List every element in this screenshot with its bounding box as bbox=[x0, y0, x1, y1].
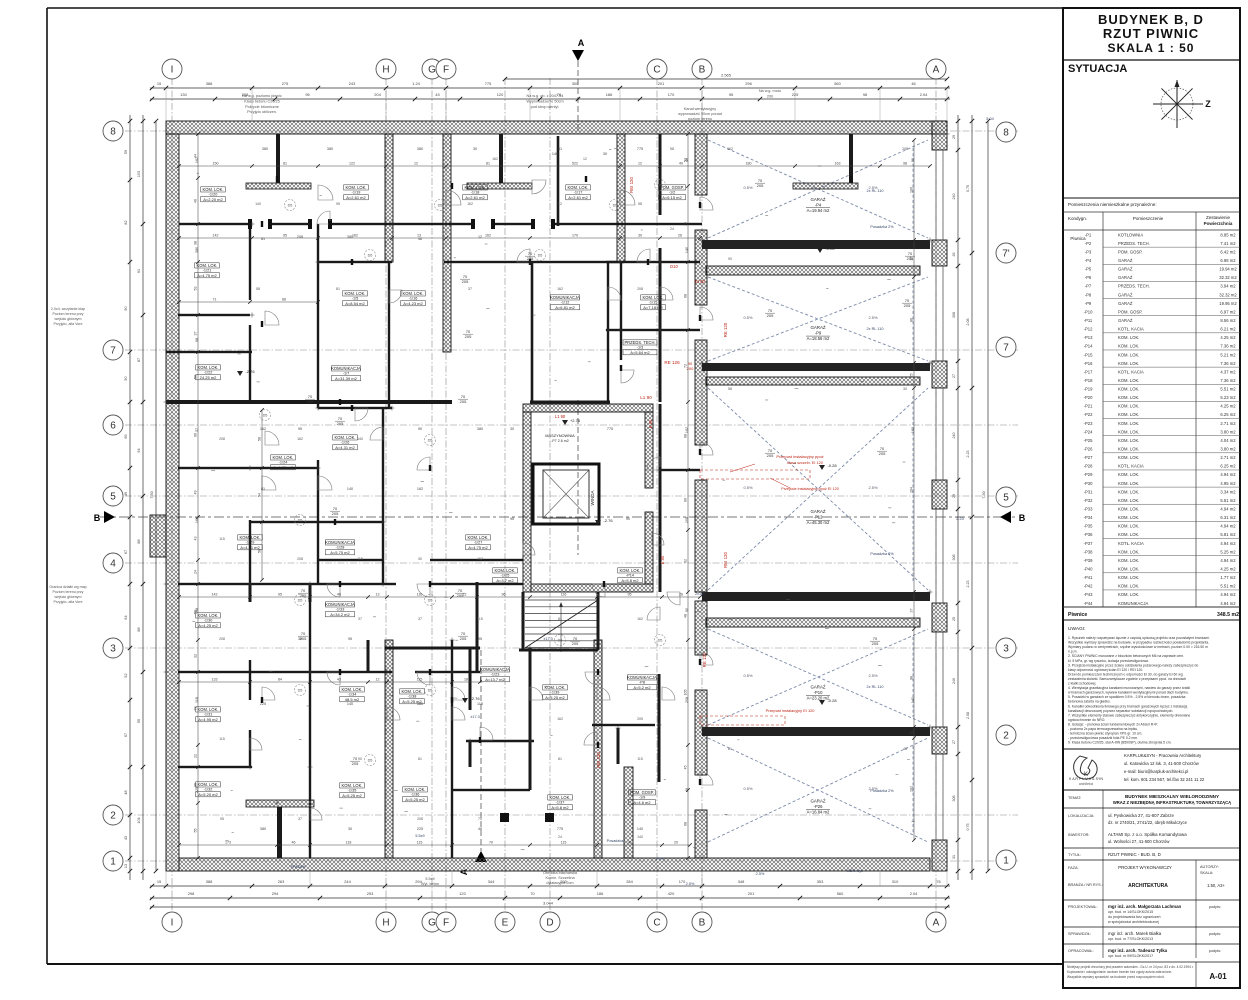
door arc bbox=[317, 211, 330, 224]
svg-text:46: 46 bbox=[292, 841, 296, 845]
svg-text:REI 120: REI 120 bbox=[629, 177, 634, 193]
svg-text:B: B bbox=[699, 65, 706, 76]
svg-text:2x110: 2x110 bbox=[695, 592, 705, 596]
garage bay 3 door dashes bbox=[912, 396, 914, 582]
svg-text:-P11: -P11 bbox=[1084, 318, 1093, 323]
intersection marker bbox=[381, 521, 386, 523]
svg-text:KOMUNIKACJA: KOMUNIKACJA bbox=[331, 366, 361, 371]
svg-text:240: 240 bbox=[952, 678, 956, 684]
svg-text:90: 90 bbox=[124, 306, 128, 310]
svg-text:30: 30 bbox=[510, 427, 514, 431]
room label KOM. LOK. -1/34 bbox=[340, 687, 365, 702]
note bottom left bbox=[421, 877, 439, 886]
svg-text:208: 208 bbox=[297, 557, 303, 561]
svg-text:12: 12 bbox=[478, 235, 482, 239]
interior wall x532 mid bbox=[531, 262, 534, 402]
T partition 1 bbox=[246, 183, 311, 189]
svg-text:140: 140 bbox=[685, 247, 689, 253]
svg-text:2.23: 2.23 bbox=[966, 581, 970, 588]
svg-text:KOM. LOK.: KOM. LOK. bbox=[1118, 429, 1139, 434]
svg-text:Wyl. beton: Wyl. beton bbox=[421, 882, 439, 886]
svg-text:5: 5 bbox=[1003, 493, 1009, 504]
svg-text:4.37 m2: 4.37 m2 bbox=[1220, 369, 1236, 374]
grid line row 1 bbox=[125, 860, 1018, 862]
svg-text:H: H bbox=[382, 918, 389, 929]
svg-text:D10: D10 bbox=[670, 264, 678, 269]
svg-text:2x RL 110: 2x RL 110 bbox=[867, 189, 884, 193]
door size label bbox=[298, 588, 308, 598]
svg-text:105: 105 bbox=[684, 690, 688, 696]
door jamb bbox=[585, 176, 587, 182]
garage bay 1 door dashes bbox=[912, 148, 914, 230]
intersection marker bbox=[528, 647, 533, 649]
room label KOMUNIKACJA -1/7 bbox=[331, 366, 361, 381]
svg-text:3: 3 bbox=[1003, 644, 1009, 655]
svg-text:380: 380 bbox=[347, 235, 353, 239]
svg-text:95: 95 bbox=[305, 92, 309, 97]
svg-text:420: 420 bbox=[668, 891, 675, 896]
svg-text:KOM. LOK.: KOM. LOK. bbox=[1118, 489, 1139, 494]
intersection marker bbox=[164, 671, 169, 673]
door jamb bbox=[339, 581, 341, 587]
interior dimension line x198 bbox=[194, 132, 200, 860]
svg-text:7: 7 bbox=[110, 346, 116, 357]
svg-text:-P6: -P6 bbox=[1085, 275, 1092, 280]
svg-text:2: 2 bbox=[1003, 731, 1009, 742]
svg-text:KOM. LOK.: KOM. LOK. bbox=[1118, 567, 1139, 572]
compass rose bbox=[1153, 80, 1211, 128]
svg-text:-P12: -P12 bbox=[814, 515, 824, 520]
svg-text:2x RL 110: 2x RL 110 bbox=[867, 327, 884, 331]
intersection marker bbox=[700, 362, 705, 364]
svg-text:PRZEDS. TECH.: PRZEDS. TECH. bbox=[1118, 241, 1150, 246]
svg-text:66: 66 bbox=[124, 434, 128, 438]
svg-text:162: 162 bbox=[467, 202, 473, 206]
svg-text:95: 95 bbox=[283, 234, 287, 238]
door arc bbox=[446, 190, 461, 205]
svg-text:73: 73 bbox=[194, 707, 198, 711]
interior wall y725 right of corridor bbox=[592, 724, 655, 726]
svg-text:162: 162 bbox=[477, 557, 483, 561]
svg-text:208: 208 bbox=[297, 235, 303, 239]
svg-text:±17.3: ±17.3 bbox=[470, 715, 479, 719]
svg-text:81: 81 bbox=[261, 487, 265, 491]
door jamb bbox=[647, 259, 649, 265]
svg-text:115: 115 bbox=[219, 537, 225, 541]
stair core bottom wall bbox=[531, 584, 653, 592]
svg-text:208: 208 bbox=[417, 817, 423, 821]
garage bay 3 cross bbox=[708, 388, 928, 590]
inwestor row bbox=[1068, 832, 1187, 844]
svg-text:46: 46 bbox=[478, 827, 482, 831]
interior wall y468 bbox=[178, 467, 318, 469]
door size label bbox=[902, 298, 912, 308]
garage bay 5 label bbox=[806, 798, 830, 814]
svg-text:KOTŁOWNIA: KOTŁOWNIA bbox=[1118, 232, 1143, 237]
svg-text:D5: D5 bbox=[438, 204, 443, 208]
garage divider wall 4-5 bbox=[702, 727, 930, 736]
svg-text:5.51 m2: 5.51 m2 bbox=[1220, 387, 1236, 392]
svg-text:118: 118 bbox=[346, 841, 352, 845]
svg-text:GARAŻ: GARAŻ bbox=[1118, 267, 1133, 272]
svg-text:243: 243 bbox=[349, 81, 356, 86]
svg-text:-P39: -P39 bbox=[1084, 558, 1094, 563]
svg-text:KOM. LOK.: KOM. LOK. bbox=[1118, 344, 1139, 349]
svg-text:KOM. LOK.: KOM. LOK. bbox=[403, 291, 424, 296]
svg-text:do projektowania bez ogranicze: do projektowania bez ograniczeń bbox=[1108, 915, 1161, 919]
svg-text:RE 120: RE 120 bbox=[702, 652, 707, 667]
svg-text:A=4.6 m2: A=4.6 m2 bbox=[633, 800, 651, 805]
svg-text:2.565: 2.565 bbox=[721, 73, 732, 78]
grid bubble H top bbox=[376, 59, 396, 79]
svg-text:D5: D5 bbox=[658, 639, 663, 643]
svg-text:KOM. LOK.: KOM. LOK. bbox=[273, 455, 294, 460]
exterior wall right pillar 6 bbox=[932, 727, 947, 754]
svg-text:1. Rysunek należy rozpatrywać: 1. Rysunek należy rozpatrywać łącznie z … bbox=[1068, 636, 1210, 640]
svg-text:37: 37 bbox=[195, 428, 199, 432]
grid bubble B top bbox=[692, 59, 712, 79]
svg-text:380: 380 bbox=[477, 427, 483, 431]
svg-text:253: 253 bbox=[367, 891, 374, 896]
svg-text:A=8.54 m2: A=8.54 m2 bbox=[345, 301, 365, 306]
svg-text:8: 8 bbox=[110, 127, 116, 138]
door arc bbox=[250, 738, 262, 750]
door jamb bbox=[429, 581, 431, 587]
svg-text:E 80: E 80 bbox=[660, 555, 665, 564]
door jambs wall y224 bbox=[248, 219, 252, 229]
door tag D5 bbox=[425, 435, 436, 446]
interior wall y741 bbox=[466, 740, 534, 743]
room label KOM. LOK. -1/36 bbox=[403, 787, 428, 802]
room label KOM. LOK. -1/29 bbox=[238, 535, 263, 550]
svg-text:59: 59 bbox=[124, 150, 128, 154]
grid bubble 7' right bbox=[996, 243, 1016, 263]
svg-text:46: 46 bbox=[418, 237, 422, 241]
svg-text:120: 120 bbox=[459, 891, 466, 896]
svg-text:140: 140 bbox=[637, 827, 643, 831]
svg-text:142: 142 bbox=[212, 593, 218, 597]
room label KOMUNIKACJA -P8 bbox=[627, 675, 657, 690]
dimension drop line bbox=[529, 88, 531, 121]
svg-text:5.51 m2: 5.51 m2 bbox=[1220, 584, 1236, 589]
svg-text:A=2.61 m2: A=2.61 m2 bbox=[346, 195, 366, 200]
room label KOM. LOK. -1/19 bbox=[344, 185, 369, 200]
intersection marker bbox=[700, 726, 705, 728]
dimension drop line bbox=[879, 88, 881, 121]
svg-text:POM. GOSP.: POM. GOSP. bbox=[630, 790, 654, 795]
svg-text:FAZA:: FAZA: bbox=[1068, 866, 1079, 870]
intersection marker bbox=[658, 261, 663, 263]
svg-text:podpis:: podpis: bbox=[1209, 932, 1221, 936]
door size label bbox=[877, 446, 887, 456]
svg-text:208: 208 bbox=[219, 437, 225, 441]
door arc bbox=[318, 476, 332, 490]
svg-text:klasy odporności ogniowej ścia: klasy odporności ogniowej ścian EI 120 /… bbox=[1068, 668, 1143, 672]
svg-text:KOM. LOK.: KOM. LOK. bbox=[198, 613, 219, 618]
svg-text:KOM. LOK.: KOM. LOK. bbox=[568, 185, 589, 190]
svg-text:WRAZ Z NIEZBĘDNĄ INFRASTRUKTUR: WRAZ Z NIEZBĘDNĄ INFRASTRUKTURĄ TOWARZYS… bbox=[1113, 800, 1231, 805]
svg-text:140: 140 bbox=[637, 835, 643, 839]
svg-text:7.36 m2: 7.36 m2 bbox=[1220, 344, 1236, 349]
svg-text:55: 55 bbox=[194, 829, 198, 833]
svg-text:162: 162 bbox=[297, 437, 303, 441]
intersection marker bbox=[657, 724, 662, 726]
svg-text:290: 290 bbox=[560, 879, 567, 884]
svg-text:G: G bbox=[428, 918, 436, 929]
intersection marker bbox=[450, 639, 455, 641]
interior wall hatched x389 bottom bbox=[385, 640, 393, 858]
svg-text:37: 37 bbox=[194, 332, 198, 336]
svg-text:0.5% wyl.: 0.5% wyl. bbox=[847, 869, 863, 873]
svg-text:240: 240 bbox=[952, 433, 956, 439]
svg-text:D5: D5 bbox=[558, 639, 563, 643]
svg-text:LOKALIZACJA:: LOKALIZACJA: bbox=[1068, 814, 1094, 818]
door jamb bbox=[261, 321, 263, 327]
svg-text:208: 208 bbox=[685, 697, 689, 703]
garage bay 2 label bbox=[806, 325, 830, 341]
svg-text:26: 26 bbox=[952, 253, 956, 257]
stair flight bbox=[525, 600, 598, 652]
svg-text:Pokrycie bitumiczne: Pokrycie bitumiczne bbox=[245, 105, 279, 109]
svg-text:45: 45 bbox=[684, 766, 688, 770]
intersection marker bbox=[164, 401, 169, 403]
svg-text:KOM. LOK.: KOM. LOK. bbox=[1118, 404, 1139, 409]
svg-text:115: 115 bbox=[477, 617, 483, 621]
svg-text:wyprowadzić 50cm ponad: wyprowadzić 50cm ponad bbox=[678, 112, 722, 116]
grid bubble B bottom bbox=[692, 912, 712, 932]
interior wall vertical x660 mid bbox=[659, 404, 662, 592]
svg-text:D5: D5 bbox=[298, 599, 303, 603]
dimension drop line bbox=[946, 88, 948, 121]
svg-text:KOM. LOK.: KOM. LOK. bbox=[1118, 575, 1139, 580]
svg-text:D5: D5 bbox=[428, 439, 433, 443]
dimension drop line bbox=[165, 88, 167, 121]
svg-text:Posadzka 2%: Posadzka 2% bbox=[870, 552, 894, 556]
garage bay 4 slope labels bbox=[743, 673, 878, 678]
svg-text:50: 50 bbox=[194, 375, 198, 379]
exterior wall right pillar 3 bbox=[932, 361, 947, 388]
svg-text:81: 81 bbox=[558, 617, 562, 621]
svg-text:KOM. LOK.: KOM. LOK. bbox=[198, 707, 219, 712]
intersection marker bbox=[618, 261, 623, 263]
door size label bbox=[305, 394, 315, 404]
svg-text:380: 380 bbox=[195, 247, 199, 253]
interior dimension line y595 bbox=[177, 593, 702, 599]
svg-text:Przejście instalacyjne ppoż EI: Przejście instalacyjne ppoż EI 120 bbox=[781, 487, 839, 491]
svg-text:142: 142 bbox=[213, 234, 219, 238]
svg-text:6.97 m2: 6.97 m2 bbox=[1220, 309, 1236, 314]
svg-text:348: 348 bbox=[738, 879, 745, 884]
svg-text:-P19: -P19 bbox=[1084, 387, 1094, 392]
svg-text:37: 37 bbox=[910, 609, 914, 613]
room label KOM. LOK. -1/30 bbox=[196, 613, 221, 628]
door tag D5 bbox=[425, 595, 436, 606]
door arc bbox=[637, 249, 650, 262]
svg-text:40: 40 bbox=[679, 162, 683, 166]
dimension chain top 1 bbox=[150, 81, 950, 90]
svg-text:2: 2 bbox=[110, 811, 116, 822]
svg-text:-P25: -P25 bbox=[1084, 438, 1094, 443]
svg-text:205: 205 bbox=[460, 399, 467, 404]
svg-text:Piwnice: Piwnice bbox=[1068, 612, 1087, 618]
svg-text:-P18: -P18 bbox=[1084, 378, 1094, 383]
svg-text:81: 81 bbox=[261, 237, 265, 241]
door size label bbox=[765, 448, 775, 458]
grid bubble G bottom bbox=[422, 912, 442, 932]
svg-text:208: 208 bbox=[685, 517, 689, 523]
door size label bbox=[458, 394, 468, 404]
interior wall y224 bbox=[179, 223, 252, 225]
garage divider wall 1-2 bbox=[702, 240, 930, 249]
svg-text:KOM. LOK.: KOM. LOK. bbox=[1118, 558, 1139, 563]
svg-text:KOM. LOK.: KOM. LOK. bbox=[1118, 524, 1139, 529]
dimension chain left 2 bbox=[137, 115, 145, 880]
svg-text:A=2.20 m2: A=2.20 m2 bbox=[203, 197, 223, 202]
svg-text:TYTUŁ:: TYTUŁ: bbox=[1068, 853, 1081, 857]
svg-text:4: 4 bbox=[110, 559, 116, 570]
footer note + number bbox=[1067, 965, 1227, 981]
svg-text:162: 162 bbox=[260, 427, 266, 431]
svg-text:WINDA: WINDA bbox=[590, 491, 595, 506]
intersection marker bbox=[390, 407, 395, 409]
dimension chain top 2 bbox=[150, 92, 950, 101]
svg-text:162: 162 bbox=[685, 427, 689, 433]
svg-text:3.94 m2: 3.94 m2 bbox=[1220, 284, 1236, 289]
note block bbox=[526, 94, 563, 109]
svg-text:A=3.7 m2: A=3.7 m2 bbox=[496, 578, 514, 583]
svg-text:173: 173 bbox=[225, 841, 231, 845]
svg-text:0.75: 0.75 bbox=[966, 824, 970, 831]
svg-text:A=6.15 m2: A=6.15 m2 bbox=[662, 195, 682, 200]
grid line column I bbox=[171, 78, 173, 912]
grid bubble C top bbox=[647, 59, 667, 79]
intersection marker bbox=[250, 314, 255, 316]
svg-text:90: 90 bbox=[911, 158, 915, 162]
door arc bbox=[417, 584, 430, 597]
grid line column C bbox=[656, 78, 658, 912]
svg-text:-P12: -P12 bbox=[1084, 327, 1094, 332]
svg-text:12: 12 bbox=[583, 157, 587, 161]
intersection marker bbox=[468, 740, 473, 742]
svg-text:0.5%: 0.5% bbox=[743, 485, 753, 490]
svg-text:0.5%: 0.5% bbox=[743, 786, 753, 791]
svg-text:775: 775 bbox=[485, 81, 492, 86]
svg-text:25: 25 bbox=[910, 374, 914, 378]
svg-text:76: 76 bbox=[684, 222, 688, 226]
svg-text:5.5x9: 5.5x9 bbox=[425, 877, 434, 881]
svg-text:98: 98 bbox=[195, 338, 199, 342]
note block bbox=[242, 94, 282, 114]
svg-text:116: 116 bbox=[561, 593, 567, 597]
door size label bbox=[455, 588, 465, 598]
exterior wall top bbox=[166, 121, 947, 134]
door size label bbox=[905, 251, 915, 261]
dimension drop line bbox=[251, 88, 253, 121]
door tag D5 bbox=[295, 685, 306, 696]
svg-text:-P10: -P10 bbox=[1084, 309, 1094, 314]
grid line row 6 bbox=[125, 424, 1018, 426]
svg-text:380: 380 bbox=[260, 827, 266, 831]
svg-text:2. ŚCIANY PIWNIC murowane z bl: 2. ŚCIANY PIWNIC murowane z bloczków bet… bbox=[1068, 653, 1184, 658]
svg-text:46: 46 bbox=[337, 593, 341, 597]
svg-text:46: 46 bbox=[903, 747, 907, 751]
svg-text:A=4.75 m2: A=4.75 m2 bbox=[468, 545, 488, 550]
svg-text:klasa szczeln. EI 120: klasa szczeln. EI 120 bbox=[787, 461, 823, 465]
interior wall vertical x389 bbox=[388, 262, 390, 408]
svg-text:-P2: -P2 bbox=[1085, 241, 1092, 246]
door tag D5 bbox=[295, 595, 306, 606]
door arc bbox=[452, 687, 465, 700]
interior dimension line x914 bbox=[910, 138, 916, 842]
svg-text:KOMUNIKACJA: KOMUNIKACJA bbox=[480, 667, 510, 672]
svg-text:G: G bbox=[428, 65, 436, 76]
elevation marker bbox=[595, 518, 613, 525]
grid bubble A bottom bbox=[926, 912, 946, 932]
garage bay 5 door dashes bbox=[912, 746, 914, 834]
garage bay 2 door dashes bbox=[912, 285, 914, 353]
svg-text:-P34: -P34 bbox=[1084, 515, 1094, 520]
svg-text:KOM. LOK.: KOM. LOK. bbox=[1118, 378, 1139, 383]
interior wall hatched x620 bbox=[617, 134, 625, 262]
stair side wall bbox=[522, 592, 525, 650]
dimension drop line bbox=[385, 88, 387, 121]
svg-text:1.24: 1.24 bbox=[412, 81, 420, 86]
projektowal row bbox=[1068, 904, 1221, 924]
svg-text:OPRACOWAŁ:: OPRACOWAŁ: bbox=[1068, 949, 1094, 953]
svg-text:Przyjęto obliczen.: Przyjęto obliczen. bbox=[247, 110, 277, 114]
door jamb bbox=[329, 221, 331, 227]
svg-text:BRANŻA / NR RYS.:: BRANŻA / NR RYS.: bbox=[1068, 882, 1103, 887]
svg-text:205: 205 bbox=[757, 183, 764, 188]
svg-text:30: 30 bbox=[348, 827, 352, 831]
door arc bbox=[265, 431, 279, 445]
door jamb bbox=[699, 202, 701, 208]
door arc bbox=[597, 687, 610, 700]
svg-text:49: 49 bbox=[124, 492, 128, 496]
svg-text:3.34 m2: 3.34 m2 bbox=[1220, 489, 1236, 494]
intersection marker bbox=[945, 133, 950, 135]
svg-text:4.94 m2: 4.94 m2 bbox=[1220, 558, 1236, 563]
svg-text:-P40: -P40 bbox=[1084, 567, 1094, 572]
svg-text:3. Przejścia instalacyjne prze: 3. Przejścia instalacyjne przez ściany o… bbox=[1068, 663, 1198, 667]
svg-text:KOMUNIKACJA: KOMUNIKACJA bbox=[627, 675, 657, 680]
svg-text:4. Wentylacja grawitacyjna kan: 4. Wentylacja grawitacyjna kanałami muro… bbox=[1068, 686, 1190, 690]
svg-text:115: 115 bbox=[561, 841, 567, 845]
room label KOM. LOK. -1/24 bbox=[271, 455, 296, 470]
svg-text:205: 205 bbox=[879, 451, 886, 456]
interior dimension line x688 bbox=[684, 132, 690, 860]
svg-text:58: 58 bbox=[258, 437, 262, 441]
svg-text:308: 308 bbox=[952, 555, 956, 561]
svg-text:D5: D5 bbox=[428, 599, 433, 603]
interior wall vertical x660 bbox=[659, 134, 662, 215]
dimension drop line bottom bbox=[309, 871, 311, 886]
grid bubble 5 left bbox=[103, 486, 123, 506]
svg-text:ul. Wolności 27, 41-500 Chorzó: ul. Wolności 27, 41-500 Chorzów bbox=[1108, 839, 1170, 844]
svg-text:205: 205 bbox=[352, 761, 359, 766]
svg-text:20: 20 bbox=[674, 841, 678, 845]
svg-text:37: 37 bbox=[418, 617, 422, 621]
grid line row 2 bbox=[125, 814, 1018, 816]
door tag D5 bbox=[295, 515, 306, 526]
svg-text:ul. Katowicka 12 lok. 3, 41-50: ul. Katowicka 12 lok. 3, 41-500 Chorzów bbox=[1124, 761, 1200, 766]
company logo bbox=[1074, 756, 1098, 779]
svg-text:poziom terenu: poziom terenu bbox=[688, 117, 712, 121]
intersection marker bbox=[450, 671, 455, 673]
svg-text:162: 162 bbox=[557, 717, 563, 721]
section marker B left bbox=[94, 511, 115, 523]
svg-text:58: 58 bbox=[258, 549, 262, 553]
